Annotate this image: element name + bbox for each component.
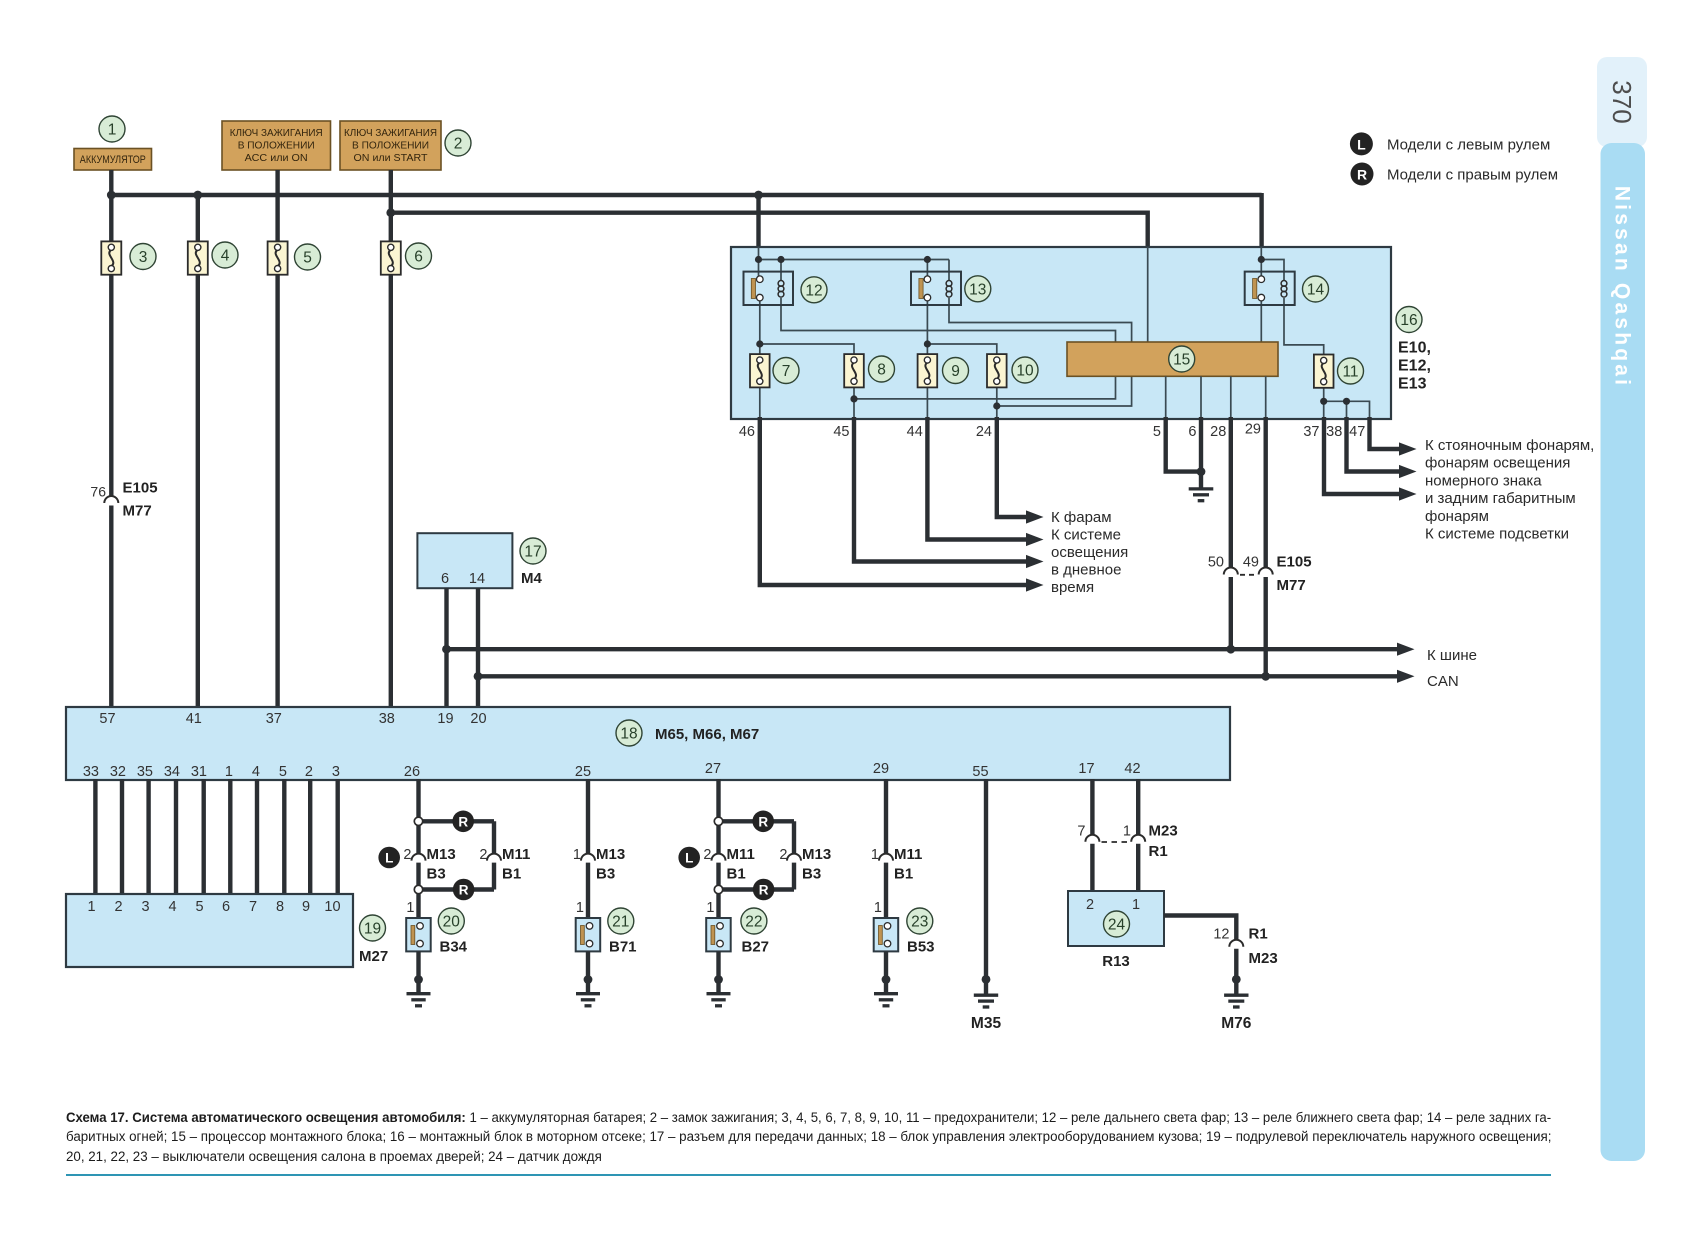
wire pin 45 to DRL arrow <box>854 417 1026 562</box>
junction fuse4/bus <box>193 191 202 200</box>
svg-text:E10,: E10, <box>1398 340 1431 357</box>
svg-text:CAN: CAN <box>1427 673 1459 690</box>
svg-text:4: 4 <box>252 764 260 780</box>
svg-text:31: 31 <box>191 764 207 780</box>
svg-text:КЛЮЧ ЗАЖИГАНИЯ: КЛЮЧ ЗАЖИГАНИЯ <box>230 128 323 139</box>
internal wire: bus2 to processor 15 <box>1147 247 1149 342</box>
svg-text:ON или START: ON или START <box>354 153 429 164</box>
svg-text:29: 29 <box>1245 422 1261 438</box>
svg-text:24: 24 <box>976 424 992 440</box>
wire fuse 5 from ACC/ON <box>275 170 279 708</box>
ground B34 <box>407 951 431 1005</box>
svg-text:M13: M13 <box>802 846 831 863</box>
wire feed drop to relays 12/13 <box>756 193 760 249</box>
svg-text:34: 34 <box>164 764 180 780</box>
data link connector 17 (M4) <box>417 533 546 588</box>
svg-text:R: R <box>758 815 768 830</box>
svg-text:B27: B27 <box>742 939 770 956</box>
svg-text:Nissan Qashqai: Nissan Qashqai <box>1611 186 1634 388</box>
junction fuses 7/8 input <box>756 340 763 347</box>
svg-text:E12,: E12, <box>1398 358 1431 375</box>
svg-text:2: 2 <box>114 899 122 915</box>
svg-text:6: 6 <box>222 899 230 915</box>
junction fuse 11 output / pin 37 <box>1320 398 1327 405</box>
connector E105/M77 pin 76 <box>90 480 157 520</box>
svg-text:фонарям освещения: фонарям освещения <box>1425 455 1570 472</box>
door switch 23 circuit (pin 29) <box>871 779 922 918</box>
svg-text:1: 1 <box>576 900 584 916</box>
svg-text:E105: E105 <box>1277 554 1312 571</box>
sidebar Nissan Qashqai <box>1601 143 1646 1161</box>
wire fuse 3 down to pin 57 (with E105/M77 break) <box>109 275 113 708</box>
svg-text:E105: E105 <box>123 480 158 497</box>
high-beam relay 12 <box>744 272 828 305</box>
svg-text:1: 1 <box>1132 897 1140 913</box>
svg-text:37: 37 <box>1303 424 1319 440</box>
svg-text:3: 3 <box>332 764 340 780</box>
junction relay feed/bus <box>754 191 763 200</box>
svg-text:10: 10 <box>1016 363 1034 380</box>
svg-text:11: 11 <box>1342 364 1358 381</box>
ground B27 <box>707 951 731 1005</box>
svg-text:47: 47 <box>1349 424 1365 440</box>
svg-text:10: 10 <box>324 899 340 915</box>
svg-text:6: 6 <box>1188 424 1196 440</box>
internal wire: relay 14 coil to fuse 11 <box>1284 298 1324 355</box>
svg-text:2: 2 <box>703 847 711 863</box>
svg-text:5: 5 <box>1153 424 1161 440</box>
svg-text:9: 9 <box>951 363 960 380</box>
internal node: relay 14 supply <box>1261 247 1284 281</box>
svg-text:4: 4 <box>221 248 230 265</box>
svg-text:38: 38 <box>1326 424 1342 440</box>
wire pin 32 to switch pin 2 <box>120 779 124 895</box>
svg-text:1: 1 <box>108 122 117 139</box>
battery 1 (АККУМУЛЯТОР) <box>74 116 152 170</box>
svg-text:и задним габаритным: и задним габаритным <box>1425 490 1576 507</box>
fuse 11 <box>1314 355 1364 388</box>
wire pin 5 to ground <box>1166 417 1201 472</box>
tail-lamp relay 14 <box>1245 272 1329 305</box>
internal wire: relay 13 contact to fuses 9/10 <box>927 301 996 354</box>
svg-text:8: 8 <box>276 899 284 915</box>
svg-text:7: 7 <box>1077 824 1085 840</box>
wire pin 2 to switch pin 9 <box>308 779 312 895</box>
svg-text:B3: B3 <box>596 866 615 883</box>
svg-text:6: 6 <box>414 249 423 266</box>
processor of mounting block 15 <box>1067 342 1278 376</box>
svg-text:5: 5 <box>195 899 203 915</box>
internal wire: fuse 7 output to pin 46 <box>759 387 761 419</box>
svg-text:номерного знака: номерного знака <box>1425 472 1542 489</box>
ground symbol (pins 5/6) <box>1189 489 1214 501</box>
internal wire: relay 12 contact to fuses 7/8 <box>760 301 854 354</box>
wire pin 33 to switch pin 1 <box>93 779 97 895</box>
svg-text:2: 2 <box>454 136 463 153</box>
wire feed drop to relay 14 <box>1259 193 1263 249</box>
wire pin 44 to DRL arrow <box>927 417 1026 540</box>
svg-text:2: 2 <box>1086 897 1094 913</box>
svg-text:8: 8 <box>877 362 886 379</box>
wire pin 37 to parking lamps arrow <box>1324 417 1399 494</box>
svg-text:1: 1 <box>225 764 233 780</box>
junction relay12 coil feed <box>777 256 784 263</box>
wire pin 34 to switch pin 4 <box>174 779 178 895</box>
svg-text:14: 14 <box>1307 282 1325 299</box>
door switch 20 circuit (pin 26) <box>378 779 530 918</box>
svg-text:24: 24 <box>1108 917 1126 934</box>
svg-text:АККУМУЛЯТОР: АККУМУЛЯТОР <box>80 154 146 166</box>
wire pin 38 to parking lamps arrow <box>1347 417 1400 472</box>
svg-text:21: 21 <box>612 914 629 931</box>
ground B53 <box>874 951 898 1005</box>
svg-text:46: 46 <box>739 424 755 440</box>
svg-text:57: 57 <box>99 711 115 727</box>
internal wire: fuse 8 output to pin 45 <box>853 387 855 419</box>
wire pin 47 to parking lamps arrow <box>1370 417 1400 449</box>
svg-text:R: R <box>459 883 469 898</box>
svg-text:14: 14 <box>469 571 485 587</box>
svg-text:15: 15 <box>1173 352 1190 369</box>
junction relay14 contact feed <box>1258 256 1265 263</box>
junction relay13 contact feed <box>924 256 931 263</box>
ground B71 <box>576 951 600 1005</box>
caption rule <box>66 1174 1551 1177</box>
svg-text:АСС или ON: АСС или ON <box>245 153 308 164</box>
svg-text:К системе: К системе <box>1051 527 1121 544</box>
fuse 10 <box>987 354 1038 387</box>
svg-text:B1: B1 <box>502 866 521 883</box>
svg-text:25: 25 <box>575 764 591 780</box>
wire pin 29 to CAN (with connector break 49) <box>1263 417 1267 676</box>
svg-text:Модели с правым рулем: Модели с правым рулем <box>1387 167 1558 184</box>
svg-text:50: 50 <box>1208 555 1224 571</box>
junction battery/bus <box>107 191 116 200</box>
caption (scheme description) <box>66 1109 1447 1128</box>
svg-text:R: R <box>1357 166 1367 182</box>
svg-text:7: 7 <box>782 363 791 380</box>
svg-text:49: 49 <box>1243 555 1259 571</box>
svg-text:1: 1 <box>87 899 95 915</box>
internal node: relay 12/13 supply rail <box>759 247 950 281</box>
svg-text:19: 19 <box>364 921 381 938</box>
junction pin 38 tap <box>1343 398 1350 405</box>
svg-text:B3: B3 <box>427 866 446 883</box>
svg-text:B71: B71 <box>609 939 637 956</box>
junction bus2 tap <box>386 208 395 217</box>
svg-text:33: 33 <box>83 764 99 780</box>
svg-text:9: 9 <box>302 899 310 915</box>
fuse 6 <box>381 241 432 274</box>
svg-text:13: 13 <box>969 281 986 298</box>
svg-text:L: L <box>1357 136 1366 152</box>
svg-text:1: 1 <box>1123 824 1131 840</box>
fuse 4 <box>188 241 238 274</box>
svg-text:B3: B3 <box>802 866 821 883</box>
svg-text:1: 1 <box>871 847 879 863</box>
svg-text:M13: M13 <box>427 846 456 863</box>
svg-text:К системе подсветки: К системе подсветки <box>1425 526 1569 543</box>
svg-text:М65, М66, М67: М65, М66, М67 <box>655 726 759 743</box>
rain sensor 24 (R13) <box>1068 891 1164 970</box>
page number tab 370 <box>1597 57 1647 147</box>
body control module 18 (М65,М66,М67) <box>66 707 1230 780</box>
svg-text:M23: M23 <box>1149 823 1178 840</box>
svg-text:L: L <box>685 851 693 866</box>
door switch 21 circuit (pin 25) <box>573 779 625 918</box>
engine-bay fuse/relay box 16 (E10,E12,E13) <box>731 247 1431 419</box>
svg-text:2: 2 <box>479 847 487 863</box>
wire pin 5 to switch pin 8 <box>282 779 286 895</box>
door lamp switch 20 (B34) <box>406 900 467 956</box>
svg-text:35: 35 <box>137 764 153 780</box>
internal wire: relay 13 coil loop to fuse 10 output <box>949 298 1132 406</box>
svg-text:17: 17 <box>524 544 541 561</box>
svg-text:M4: M4 <box>521 570 542 587</box>
svg-text:27: 27 <box>705 761 721 777</box>
internal wires: processor 15 outputs to pins 5/6/28/29 <box>1166 376 1266 419</box>
svg-text:19: 19 <box>437 711 453 727</box>
svg-text:R: R <box>759 883 769 898</box>
svg-text:5: 5 <box>279 764 287 780</box>
svg-text:37: 37 <box>266 711 282 727</box>
svg-text:1: 1 <box>406 900 414 916</box>
svg-text:B34: B34 <box>440 939 468 956</box>
internal wire: relay 14 contact to processor 15 <box>1260 301 1262 342</box>
svg-text:55: 55 <box>972 764 988 780</box>
svg-text:B1: B1 <box>894 866 913 883</box>
svg-text:5: 5 <box>303 250 312 267</box>
svg-text:R1: R1 <box>1249 926 1268 943</box>
internal wire: fuse 10 output to pin 24 <box>996 387 998 419</box>
wire К шине (K-line bus) <box>447 647 1398 651</box>
wire R13 to ground M76 (connector R1/M23 pin 12) <box>1164 916 1278 1033</box>
fuse 9 <box>918 354 969 387</box>
svg-text:в дневное: в дневное <box>1051 562 1121 579</box>
svg-text:M11: M11 <box>727 846 755 863</box>
svg-text:2: 2 <box>403 847 411 863</box>
svg-text:2: 2 <box>779 847 787 863</box>
wire pin 6 to ground <box>1199 417 1203 489</box>
svg-text:4: 4 <box>168 899 176 915</box>
svg-text:M11: M11 <box>894 846 922 863</box>
svg-text:2: 2 <box>305 764 313 780</box>
column light switch 19 (М27) <box>66 894 388 967</box>
svg-text:M11: M11 <box>502 846 530 863</box>
svg-text:38: 38 <box>379 711 395 727</box>
svg-text:М77: М77 <box>123 503 152 520</box>
svg-text:освещения: освещения <box>1051 544 1128 561</box>
wire fuse 4 branch <box>196 195 200 708</box>
svg-text:М76: М76 <box>1221 1015 1252 1032</box>
internal wire: relay 12 coil loop to fuse 8 output <box>781 298 1116 399</box>
svg-text:время: время <box>1051 579 1094 596</box>
svg-text:18: 18 <box>620 726 637 743</box>
svg-text:17: 17 <box>1078 761 1094 777</box>
junction relay12 contact feed <box>755 256 762 263</box>
wire pin 46 to DRL arrow <box>760 417 1026 585</box>
svg-text:R: R <box>458 815 468 830</box>
wire CAN bus <box>478 674 1397 678</box>
svg-text:L: L <box>385 851 393 866</box>
wire pin 24 to headlamps arrow <box>997 417 1026 517</box>
wire pin 55 to ground M35 <box>971 779 1002 1032</box>
svg-text:28: 28 <box>1210 424 1226 440</box>
ignition key position ON/START block 2 <box>340 121 471 170</box>
connector E105/M77 pins 50/49 <box>1208 554 1312 595</box>
svg-text:К шине: К шине <box>1427 647 1477 664</box>
door lamp switch 23 (B53) <box>874 900 935 956</box>
svg-text:42: 42 <box>1124 761 1140 777</box>
door switch 22 circuit (pin 27) <box>678 779 831 918</box>
wires pins 17/42 to rain sensor (connector M23/R1 pins 7/1) <box>1077 779 1177 891</box>
svg-text:7: 7 <box>249 899 257 915</box>
svg-text:3: 3 <box>139 249 148 266</box>
wire feed drop to processor 15 <box>1145 211 1149 250</box>
svg-text:М35: М35 <box>971 1015 1002 1032</box>
fuse 3 <box>101 241 156 274</box>
svg-text:КЛЮЧ ЗАЖИГАНИЯ: КЛЮЧ ЗАЖИГАНИЯ <box>344 128 437 139</box>
wire M4 pin 6 to pin 19 <box>444 588 448 708</box>
svg-text:M13: M13 <box>596 846 625 863</box>
svg-text:К фарам: К фарам <box>1051 509 1112 526</box>
svg-text:23: 23 <box>911 914 928 931</box>
ignition key position ACC/ON block <box>222 121 331 170</box>
fuse 8 <box>844 354 894 387</box>
junction fuse 10 output <box>993 402 1000 409</box>
svg-text:R13: R13 <box>1102 953 1130 970</box>
wire M4 pin 14 to pin 20 <box>476 588 480 708</box>
svg-text:16: 16 <box>1400 312 1417 329</box>
svg-text:12: 12 <box>805 282 822 299</box>
door lamp switch 21 (B71) <box>576 900 637 956</box>
fuse 7 <box>750 354 799 387</box>
wire pin 35 to switch pin 3 <box>146 779 150 895</box>
svg-text:К стояночным фонарям,: К стояночным фонарям, <box>1425 437 1594 454</box>
internal wire: fuse 11 output to pins 37/38/47 <box>1324 388 1370 419</box>
wire pin 28 to K-line (with connector break 50) <box>1229 417 1233 649</box>
svg-text:20: 20 <box>443 914 461 931</box>
wire pin 1 to switch pin 6 <box>228 779 232 895</box>
svg-text:В ПОЛОЖЕНИИ: В ПОЛОЖЕНИИ <box>238 141 315 152</box>
svg-text:26: 26 <box>404 764 420 780</box>
svg-text:М77: М77 <box>1277 577 1306 594</box>
svg-text:3: 3 <box>141 899 149 915</box>
svg-text:В ПОЛОЖЕНИИ: В ПОЛОЖЕНИИ <box>352 141 429 152</box>
svg-text:B53: B53 <box>907 939 935 956</box>
wire ignition bus 2 (horizontal) <box>391 210 1148 214</box>
junction fuse 8 output <box>850 395 857 402</box>
svg-text:B1: B1 <box>727 866 746 883</box>
svg-text:6: 6 <box>441 571 449 587</box>
svg-text:E13: E13 <box>1398 376 1427 393</box>
svg-text:M23: M23 <box>1249 950 1278 967</box>
svg-text:20: 20 <box>470 711 486 727</box>
svg-text:R1: R1 <box>1149 843 1168 860</box>
legend L: models with left-hand drive <box>1350 132 1550 155</box>
low-beam relay 13 <box>911 272 991 305</box>
svg-text:Модели с левым рулем: Модели с левым рулем <box>1387 136 1550 153</box>
svg-text:44: 44 <box>907 424 923 440</box>
svg-text:1: 1 <box>706 900 714 916</box>
svg-text:22: 22 <box>745 914 762 931</box>
wire fuse 6 from ON/START <box>389 170 393 708</box>
svg-text:М27: М27 <box>359 948 388 965</box>
junction fuses 9/10 input <box>924 340 931 347</box>
svg-text:29: 29 <box>873 761 889 777</box>
svg-text:1: 1 <box>874 900 882 916</box>
svg-text:12: 12 <box>1213 927 1229 943</box>
svg-text:32: 32 <box>110 764 126 780</box>
wire pin 3 to switch pin 10 <box>336 779 340 895</box>
wire pin 31 to switch pin 5 <box>201 779 205 895</box>
legend R: models with right-hand drive <box>1351 163 1559 186</box>
svg-text:фонарям: фонарям <box>1425 508 1489 525</box>
internal wire: fuse 9 output to pin 44 <box>926 387 928 419</box>
svg-text:1: 1 <box>573 847 581 863</box>
wire battery bus (horizontal) <box>111 170 1261 241</box>
svg-text:41: 41 <box>186 711 202 727</box>
door lamp switch 22 (B27) <box>706 900 769 956</box>
fuse 5 <box>268 241 321 274</box>
svg-text:76: 76 <box>90 484 106 500</box>
wire pin 4 to switch pin 7 <box>255 779 259 895</box>
svg-text:370: 370 <box>1607 80 1637 123</box>
svg-text:45: 45 <box>833 424 849 440</box>
